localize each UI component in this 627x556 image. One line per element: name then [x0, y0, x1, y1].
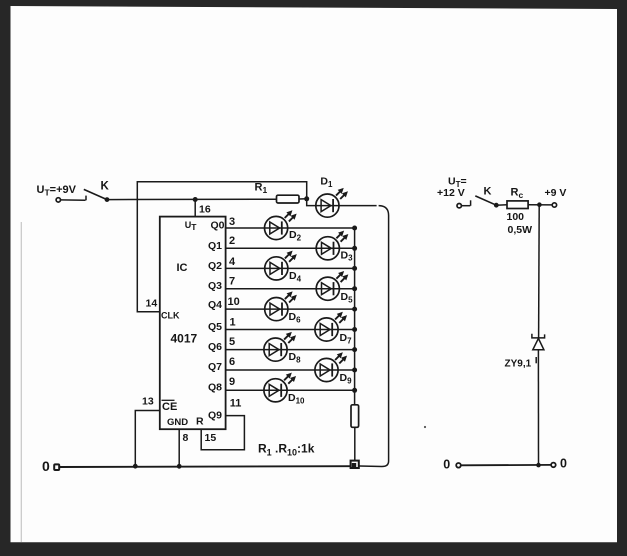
wire D1 right bus down [360, 206, 389, 467]
svg-text:CLK: CLK [161, 311, 180, 321]
wire D1 row [316, 205, 377, 207]
svg-text:6: 6 [229, 356, 235, 368]
resistor Rc body [507, 201, 528, 209]
junction Rc output dot [537, 202, 542, 207]
junction pin16 [193, 197, 198, 202]
wire switch to R1 [107, 198, 277, 200]
cathode bus vertical [354, 228, 356, 405]
stray ink mark on wire [535, 357, 537, 363]
svg-text:100: 100 [507, 211, 525, 223]
svg-text:Q2: Q2 [208, 260, 222, 272]
ground rail left circuit [59, 465, 350, 468]
svg-text:4017: 4017 [171, 332, 198, 346]
zener ZY9.1 cathode bar [532, 334, 545, 338]
wire junction down to D1 [307, 199, 316, 206]
svg-text:1: 1 [230, 316, 236, 328]
svg-text:0,5W: 0,5W [508, 224, 533, 236]
svg-text:11: 11 [230, 397, 242, 409]
switch K blade [84, 189, 107, 199]
wire CE to ground [135, 411, 160, 467]
junction zener-ground dot [536, 463, 541, 468]
svg-text:Q0: Q0 [211, 220, 225, 232]
svg-text:UT=+9V: UT=+9V [37, 184, 77, 198]
wire Rc to +9V terminal [528, 204, 552, 206]
wire R10 to ground blob [354, 427, 356, 460]
ground measuring terminal blob [351, 461, 359, 468]
LED D6 [265, 292, 297, 321]
faint page fold line [20, 222, 22, 542]
LED D3 [316, 231, 348, 260]
terminal UT left [56, 198, 60, 202]
stray dot artifact [424, 426, 426, 428]
svg-text:13: 13 [142, 396, 154, 408]
svg-text:0: 0 [560, 456, 567, 470]
svg-text:R1 .R10:1k: R1 .R10:1k [258, 442, 315, 458]
svg-text:Q6: Q6 [208, 341, 222, 353]
wire row Q0 [226, 227, 355, 229]
terminal 0 right-right [551, 463, 556, 468]
wire row Q6 [226, 349, 355, 351]
svg-text:Q9: Q9 [208, 409, 222, 421]
wire Q9 reset loop [201, 416, 244, 450]
switch K2 pivot dot [494, 203, 499, 208]
IC 4017 body [160, 217, 226, 430]
svg-text:16: 16 [199, 204, 211, 216]
svg-text:0: 0 [443, 458, 450, 472]
wire zener to ground [537, 350, 539, 465]
svg-text:3: 3 [229, 216, 235, 228]
svg-text:Q3: Q3 [208, 280, 222, 292]
terminal 0 right-left [456, 463, 461, 468]
wire row Q4 [226, 308, 355, 310]
wire row Q5 [226, 329, 355, 331]
wire row Q7 [226, 369, 355, 371]
svg-text:Q7: Q7 [208, 361, 222, 373]
CE overline [162, 399, 175, 401]
svg-text:CE: CE [162, 401, 177, 413]
wire row Q8 [226, 389, 355, 391]
switch K2 blade [475, 196, 496, 205]
wire R1 to junction [299, 198, 307, 200]
svg-text:15: 15 [205, 432, 217, 444]
svg-text:Q8: Q8 [208, 382, 222, 394]
LED D9 [315, 353, 347, 382]
ground rail right circuit [461, 464, 552, 466]
LED D10 [264, 373, 296, 402]
svg-text:0: 0 [42, 458, 50, 474]
svg-text:Q5: Q5 [208, 321, 222, 333]
LED D8 [264, 333, 296, 362]
wire GND pin drop [178, 429, 180, 466]
switch fixed contact tick [85, 196, 87, 201]
wire top loop to CLK [137, 182, 306, 312]
wire row Q1 [226, 247, 355, 249]
switch K pivot dot [105, 197, 110, 202]
svg-text:K: K [101, 181, 110, 193]
wire terminal to contact [461, 205, 470, 207]
terminal 0 left [54, 464, 59, 470]
svg-text:5: 5 [229, 336, 235, 348]
wire row Q2 [226, 267, 355, 269]
wire row Q3 [226, 288, 355, 290]
svg-text:+9 V: +9 V [545, 187, 567, 199]
svg-text:+12 V: +12 V [437, 187, 465, 199]
svg-text:ZY9,1: ZY9,1 [505, 359, 532, 370]
junction R1-D1 dot [304, 196, 309, 201]
LED D7 [315, 312, 347, 341]
resistor R10 body vertical [351, 405, 359, 428]
svg-text:8: 8 [183, 432, 189, 444]
svg-text:GND: GND [167, 417, 188, 428]
LED D1 [316, 189, 348, 218]
junction CE-ground dot [133, 464, 138, 469]
svg-text:14: 14 [146, 298, 158, 310]
wire switch to Rc [496, 204, 507, 206]
switch fixed contact tick right [470, 200, 472, 206]
zener ZY9.1 triangle [533, 338, 544, 349]
junction GND-ground dot [177, 464, 182, 469]
wire terminal to switch contact [61, 199, 86, 201]
wire down to zener [538, 205, 541, 338]
svg-text:Q1: Q1 [208, 240, 222, 252]
svg-text:9: 9 [229, 376, 235, 388]
terminal UT right [457, 204, 461, 208]
svg-text:K: K [484, 186, 492, 198]
svg-text:10: 10 [228, 296, 240, 308]
LED D4 [265, 251, 297, 280]
LED D2 [265, 211, 297, 240]
svg-text:7: 7 [229, 276, 235, 288]
svg-text:4: 4 [229, 256, 236, 268]
LED D5 [316, 272, 348, 301]
svg-text:IC: IC [177, 262, 188, 274]
wire pin16 drop [194, 200, 196, 217]
resistor R1 body [277, 195, 300, 203]
terminal +9V [552, 203, 556, 207]
bus junction dots [352, 226, 357, 393]
svg-text:2: 2 [229, 235, 235, 247]
svg-text:Q4: Q4 [208, 299, 222, 311]
svg-text:R: R [196, 416, 204, 428]
